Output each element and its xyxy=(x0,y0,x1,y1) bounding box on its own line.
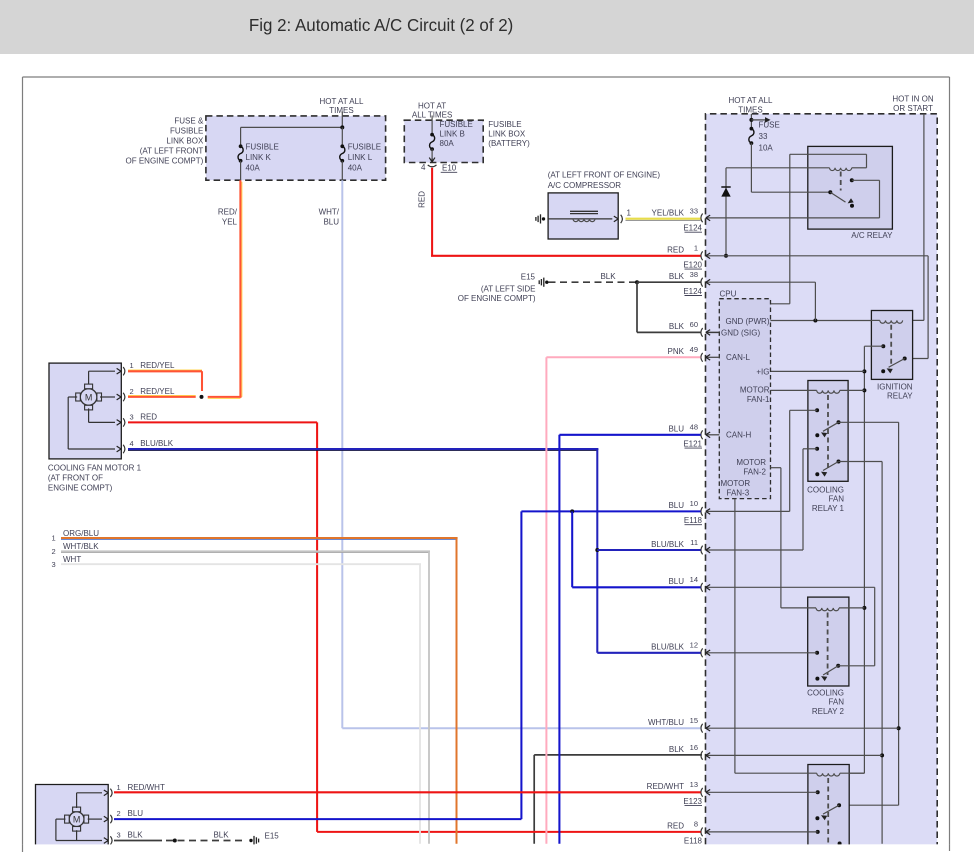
svg-text:4: 4 xyxy=(130,439,134,448)
svg-text:PNK: PNK xyxy=(668,347,685,356)
wire RED (motor1 pin 3 to pin 8) xyxy=(128,422,701,832)
svg-text:COOLING: COOLING xyxy=(807,688,844,697)
svg-text:CAN-H: CAN-H xyxy=(726,431,752,440)
A/C relay U1 xyxy=(726,146,893,303)
svg-text:RELAY: RELAY xyxy=(887,391,913,400)
wire CAN-L stub pin 49 xyxy=(701,353,719,362)
svg-text:WHT/BLK: WHT/BLK xyxy=(63,542,99,551)
svg-text:RELAY 1: RELAY 1 xyxy=(812,504,845,513)
svg-text:M: M xyxy=(73,815,81,825)
svg-text:13: 13 xyxy=(690,780,698,789)
wire CAN-H stub pin 48 xyxy=(701,430,719,439)
fusible link box (battery) xyxy=(404,101,530,162)
pin 1 labels xyxy=(667,244,702,270)
svg-text:3: 3 xyxy=(117,831,121,840)
wire WHT/BLU (link L to pin 15) xyxy=(319,180,701,728)
svg-text:LINK BOX: LINK BOX xyxy=(166,136,204,145)
wire RED/YEL (link K to motor1 pins 1,2) xyxy=(128,180,242,399)
wire pin 14 to relay2 NO contact xyxy=(701,583,875,666)
svg-text:FAN: FAN xyxy=(828,495,844,504)
svg-text:15: 15 xyxy=(690,716,698,725)
svg-text:60: 60 xyxy=(690,320,698,329)
svg-text:FUSIBLE: FUSIBLE xyxy=(170,126,203,135)
svg-text:E120: E120 xyxy=(683,260,702,269)
svg-text:CPU: CPU xyxy=(720,290,737,299)
svg-text:WHT/: WHT/ xyxy=(319,208,340,217)
cooling fan motor 2 M2 xyxy=(36,783,165,847)
svg-text:(AT FRONT OF: (AT FRONT OF xyxy=(48,474,103,483)
svg-text:OF ENGINE COMPT): OF ENGINE COMPT) xyxy=(458,294,536,303)
wire battery RED 1 to ignition relay contact xyxy=(701,251,928,358)
svg-text:1: 1 xyxy=(130,361,134,370)
label HOT AT ALL TIMES (fuse 33) xyxy=(728,96,773,114)
svg-text:TIMES: TIMES xyxy=(738,105,762,114)
svg-text:TIMES: TIMES xyxy=(329,106,353,115)
svg-text:12: 12 xyxy=(690,641,698,650)
svg-text:FUSE: FUSE xyxy=(759,121,780,130)
wire pin 8 to relay3 pole-B contact xyxy=(701,828,818,837)
svg-text:8: 8 xyxy=(694,820,698,829)
ground E15 (left side) xyxy=(458,272,549,303)
svg-text:1: 1 xyxy=(117,783,121,792)
svg-text:(BATTERY): (BATTERY) xyxy=(488,139,530,148)
svg-text:WHT: WHT xyxy=(63,555,81,564)
svg-text:1: 1 xyxy=(627,209,632,218)
svg-text:CAN-L: CAN-L xyxy=(726,353,751,362)
svg-text:80A: 80A xyxy=(440,139,455,148)
wire pin 13 to relay3 contact xyxy=(701,788,818,797)
wire relay1 pole-B contact rail xyxy=(880,462,884,844)
wire ground GND(PWR) / BLK 38 xyxy=(701,278,872,323)
svg-text:ENGINE COMPT): ENGINE COMPT) xyxy=(48,484,113,493)
svg-text:FAN-1: FAN-1 xyxy=(747,395,770,404)
svg-text:BLK: BLK xyxy=(128,831,144,840)
A/C compressor xyxy=(548,171,661,239)
pin 13 labels xyxy=(647,780,703,806)
svg-text:E15: E15 xyxy=(521,272,536,281)
svg-text:E121: E121 xyxy=(683,439,702,448)
ground G1 (compressor case) xyxy=(536,214,545,223)
svg-text:LINK K: LINK K xyxy=(246,153,272,162)
wire YEL/BLK (compressor to pin 33) xyxy=(626,219,701,221)
svg-text:MOTOR: MOTOR xyxy=(736,458,766,467)
svg-text:E118: E118 xyxy=(684,516,703,525)
svg-text:FAN-3: FAN-3 xyxy=(727,489,750,498)
svg-text:E123: E123 xyxy=(683,797,702,806)
svg-text:FAN-2: FAN-2 xyxy=(743,467,766,476)
svg-text:BLU: BLU xyxy=(668,577,684,586)
svg-text:10: 10 xyxy=(690,499,698,508)
wire ORG/BLU (1) xyxy=(52,529,458,844)
svg-text:LINK L: LINK L xyxy=(348,153,373,162)
svg-text:OR START: OR START xyxy=(893,104,933,113)
pin 49 labels xyxy=(668,345,698,356)
svg-text:LINK BOX: LINK BOX xyxy=(488,130,526,139)
svg-text:(AT LEFT FRONT OF ENGINE): (AT LEFT FRONT OF ENGINE) xyxy=(548,171,661,180)
svg-text:BLK: BLK xyxy=(669,745,685,754)
cooling fan motor 1 M1 xyxy=(48,361,175,493)
svg-text:10A: 10A xyxy=(759,143,774,152)
wire BLU (CAN-H pin 48) xyxy=(559,435,700,844)
svg-text:BLU/BLK: BLU/BLK xyxy=(651,540,685,549)
fuse 33 10A xyxy=(749,114,780,192)
svg-text:RED/WHT: RED/WHT xyxy=(128,783,165,792)
svg-text:YEL/BLK: YEL/BLK xyxy=(652,209,685,218)
svg-text:OF ENGINE COMPT): OF ENGINE COMPT) xyxy=(126,156,204,165)
pin 16 labels xyxy=(669,743,698,754)
svg-text:RED/YEL: RED/YEL xyxy=(140,387,175,396)
svg-text:GND (SIG): GND (SIG) xyxy=(721,328,760,337)
wire BLK (motor2 pin 3 to E15) xyxy=(114,831,279,846)
svg-text:HOT IN ON: HOT IN ON xyxy=(892,95,933,104)
svg-text:3: 3 xyxy=(52,560,56,569)
wire +IG rail xyxy=(771,346,867,773)
wire pin 15 WHT/BLU run xyxy=(701,724,899,733)
svg-text:BLK: BLK xyxy=(213,831,229,840)
svg-text:ORG/BLU: ORG/BLU xyxy=(63,529,99,538)
svg-text:FAN: FAN xyxy=(828,698,844,707)
svg-text:E124: E124 xyxy=(683,287,702,296)
wire RED/WHT (motor2 pin 1 to pin 13) xyxy=(114,791,701,793)
svg-text:E10: E10 xyxy=(442,164,457,173)
title header bar xyxy=(0,0,974,54)
svg-text:RED/WHT: RED/WHT xyxy=(647,782,684,791)
wire pin 16 BLK run xyxy=(701,751,882,760)
wire BLU/BLK (motor1 pin 4 to pins 11,12) xyxy=(128,449,701,653)
svg-text:WHT/BLU: WHT/BLU xyxy=(648,718,684,727)
svg-text:RED/: RED/ xyxy=(218,208,238,217)
svg-text:2: 2 xyxy=(52,547,56,556)
svg-text:FUSE &: FUSE & xyxy=(174,116,204,125)
svg-text:38: 38 xyxy=(690,270,698,279)
svg-text:4: 4 xyxy=(421,163,426,172)
svg-text:FUSIBLE: FUSIBLE xyxy=(348,143,381,152)
pin 38 labels xyxy=(669,270,703,296)
wire WHT/BLK (2) xyxy=(52,542,431,844)
svg-text:IGNITION: IGNITION xyxy=(877,383,913,392)
svg-text:49: 49 xyxy=(690,345,698,354)
svg-text:MOTOR: MOTOR xyxy=(721,479,751,488)
svg-text:FUSIBLE: FUSIBLE xyxy=(488,120,521,129)
pin 8 labels xyxy=(667,820,702,846)
svg-text:Fig 2: Automatic A/C Circuit (: Fig 2: Automatic A/C Circuit (2 of 2) xyxy=(249,15,513,35)
wire relay1 NO contact down to fan relay 3 contact xyxy=(839,422,901,805)
pin 33 labels xyxy=(652,207,703,233)
pin 15 labels xyxy=(648,716,698,727)
svg-text:(AT LEFT FRONT: (AT LEFT FRONT xyxy=(140,146,204,155)
svg-text:14: 14 xyxy=(690,575,698,584)
pin 48 labels xyxy=(668,423,702,449)
svg-text:FUSIBLE: FUSIBLE xyxy=(440,120,473,129)
wire relay1 contact to pin 11 xyxy=(701,449,803,555)
wire BLU (pins 10,14 to motor2 pin 2) xyxy=(114,509,701,819)
connector E10 xyxy=(421,158,457,173)
svg-text:A/C RELAY: A/C RELAY xyxy=(851,231,893,240)
pin 60 labels xyxy=(669,320,698,331)
wire link box internal bus xyxy=(241,112,345,147)
wire BLK 16 outside run xyxy=(534,755,702,844)
svg-text:HOT AT: HOT AT xyxy=(418,101,446,110)
svg-text:COOLING FAN MOTOR 1: COOLING FAN MOTOR 1 xyxy=(48,464,142,473)
pin 10 labels xyxy=(668,499,702,525)
svg-text:GND (PWR): GND (PWR) xyxy=(726,317,770,326)
pin 14 labels xyxy=(668,575,698,586)
fusible link K 40A xyxy=(238,143,279,181)
wire PNK (CAN-L pin 49) xyxy=(546,357,700,844)
label HOT IN ON OR START xyxy=(892,95,933,114)
fusible link B 80A xyxy=(430,116,473,159)
svg-text:BLU/BLK: BLU/BLK xyxy=(651,643,685,652)
svg-text:2: 2 xyxy=(117,809,121,818)
cooling fan relay 3 U5 (cut at page bottom) xyxy=(735,499,865,847)
cooling fan relay 1 U3 xyxy=(771,381,899,513)
diode D1 xyxy=(721,168,730,258)
svg-text:48: 48 xyxy=(690,423,698,432)
label HOT AT ALL TIMES (link L) xyxy=(319,97,364,115)
svg-text:YEL: YEL xyxy=(222,218,238,227)
page bottom white cut xyxy=(0,844,974,854)
svg-text:33: 33 xyxy=(690,207,698,216)
wire BLK (E15 to pins 38/60) xyxy=(549,272,701,333)
svg-text:E124: E124 xyxy=(683,224,702,233)
wire A/C relay output to pin 33 xyxy=(701,214,880,223)
svg-text:+IG: +IG xyxy=(756,367,769,376)
svg-text:1: 1 xyxy=(694,244,698,253)
svg-text:RED: RED xyxy=(140,412,157,421)
svg-text:FUSIBLE: FUSIBLE xyxy=(246,143,279,152)
svg-text:E15: E15 xyxy=(265,831,280,840)
svg-text:BLK: BLK xyxy=(600,272,616,281)
wire WHT (3) xyxy=(52,555,422,844)
svg-text:33: 33 xyxy=(759,132,768,141)
ignition relay U2 xyxy=(864,311,913,401)
wire GND(SIG) stub pin 60 xyxy=(701,328,719,337)
svg-text:(AT LEFT SIDE: (AT LEFT SIDE xyxy=(481,284,536,293)
svg-text:16: 16 xyxy=(690,743,698,752)
svg-text:RED: RED xyxy=(667,822,684,831)
svg-text:BLU: BLU xyxy=(668,501,684,510)
svg-text:RED/YEL: RED/YEL xyxy=(140,361,175,370)
engine compartment relay box (dashed) xyxy=(706,114,938,845)
svg-text:RED: RED xyxy=(667,246,684,255)
svg-text:HOT AT ALL: HOT AT ALL xyxy=(728,96,773,105)
svg-text:HOT AT ALL: HOT AT ALL xyxy=(319,97,364,106)
svg-text:BLU/BLK: BLU/BLK xyxy=(140,439,174,448)
svg-text:RED: RED xyxy=(418,191,427,208)
CPU (engine control) dashed box xyxy=(719,290,770,499)
svg-text:1: 1 xyxy=(52,534,56,543)
svg-text:40A: 40A xyxy=(348,163,363,172)
svg-text:M: M xyxy=(85,392,93,402)
pin 11 labels xyxy=(651,538,698,549)
svg-text:11: 11 xyxy=(690,538,698,547)
wire relay1 contact to pin 10 (fan motor feed) xyxy=(701,410,790,516)
fuse & fusible link box (K,L) xyxy=(126,116,386,180)
svg-text:BLK: BLK xyxy=(669,272,685,281)
svg-text:COOLING: COOLING xyxy=(807,485,844,494)
wire pin 12 to relay2 contact xyxy=(701,648,817,657)
svg-text:BLU: BLU xyxy=(128,809,144,818)
svg-text:MOTOR: MOTOR xyxy=(740,385,770,394)
wire RED (link B to pin 1) xyxy=(418,168,701,256)
svg-text:A/C COMPRESSOR: A/C COMPRESSOR xyxy=(548,181,622,190)
svg-text:BLU: BLU xyxy=(323,218,339,227)
svg-text:40A: 40A xyxy=(246,163,261,172)
svg-text:BLU: BLU xyxy=(668,425,684,434)
svg-text:LINK B: LINK B xyxy=(440,130,465,139)
fusible link L 40A xyxy=(340,143,381,181)
pin 12 labels xyxy=(651,641,698,652)
wire hot-in-on feed to ignition relay coil xyxy=(903,114,924,321)
svg-text:3: 3 xyxy=(130,412,134,421)
cooling fan relay 2 U4 xyxy=(771,468,875,716)
svg-text:BLK: BLK xyxy=(669,322,685,331)
svg-text:E118: E118 xyxy=(684,837,703,846)
svg-text:RELAY 2: RELAY 2 xyxy=(812,707,845,716)
svg-text:2: 2 xyxy=(130,387,134,396)
